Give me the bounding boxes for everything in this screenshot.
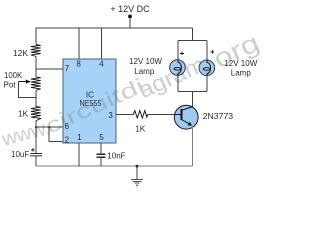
resistor 12K: [31, 45, 41, 57]
wire left rail upper: [35, 28, 37, 44]
wire lamp feed: [192, 28, 194, 40]
transistor Q1 2N3773: [174, 105, 198, 129]
svg-text:2: 2: [65, 135, 70, 144]
node +12V DC terminal: [128, 15, 132, 19]
lamp L1 12V 10W: [170, 60, 186, 76]
svg-text:2N3773: 2N3773: [203, 111, 234, 121]
ground: [131, 180, 143, 184]
IC U1 NE555: [63, 59, 116, 143]
svg-text:3: 3: [108, 111, 113, 120]
svg-text:1K: 1K: [135, 123, 146, 133]
wire to pin 7: [36, 68, 63, 70]
svg-text:Pot: Pot: [4, 81, 17, 90]
capacitor 10uF: [31, 152, 43, 154]
capacitor 10nF: [96, 153, 105, 155]
wire ground stub: [136, 166, 138, 179]
wire lamp2 top lead: [206, 40, 208, 60]
wire 12K to pot: [35, 57, 37, 78]
svg-text:5: 5: [99, 133, 104, 142]
wire emitter lead: [192, 126, 194, 166]
svg-text:4: 4: [99, 60, 104, 69]
resistor 1K left: [31, 107, 41, 121]
svg-text:6: 6: [65, 122, 70, 131]
wire lamp top bar: [178, 39, 207, 41]
svg-text:12K: 12K: [13, 48, 28, 58]
wire pot to 1K: [35, 90, 37, 107]
node ground junction: [136, 165, 139, 168]
wire 10nF to bottom rail: [100, 157, 102, 166]
wire pin 3 to 1K: [116, 113, 134, 115]
watermark www.circuitdiagram.org: [0, 27, 264, 151]
wire supply stub: [129, 17, 131, 28]
wire pin 8 lead: [78, 28, 80, 59]
svg-text:10nF: 10nF: [107, 152, 125, 161]
wire bottom rail: [36, 165, 193, 167]
svg-text:8: 8: [76, 60, 81, 69]
wire collector lead: [192, 91, 194, 107]
svg-text:1K: 1K: [18, 108, 29, 118]
wire to pin 2: [49, 127, 63, 141]
svg-text:12V 10W: 12V 10W: [224, 59, 257, 68]
wire cap to bottom rail: [35, 156, 37, 166]
svg-text:NE555: NE555: [80, 99, 102, 108]
svg-text:1: 1: [77, 133, 82, 142]
node plus lamp1: [180, 52, 184, 56]
wire pin 4 lead: [100, 28, 102, 59]
svg-text:10uF: 10uF: [11, 150, 29, 159]
node plus lamp2: [211, 50, 215, 54]
svg-text:+ 12V DC: + 12V DC: [110, 4, 150, 14]
node pin6 tee: [35, 126, 37, 128]
wire lamp1 bottom lead: [177, 75, 179, 91]
svg-text:Lamp: Lamp: [134, 67, 155, 76]
wire pin 1 lead: [78, 143, 80, 166]
wire top rail: [36, 27, 193, 29]
wire 1K to cap: [35, 121, 37, 154]
wire pin 5 lead: [100, 143, 102, 154]
resistor 1K base: [133, 111, 148, 118]
svg-text:7: 7: [65, 64, 70, 73]
svg-text:Lamp: Lamp: [231, 68, 252, 77]
wire to pin 6: [36, 126, 63, 128]
wire lamp bottom bar: [178, 90, 207, 92]
wire lamp1 top lead: [177, 40, 179, 60]
lamp L2 12V 10W: [199, 60, 215, 76]
wire 1K to base: [148, 113, 175, 115]
wire lamp2 bottom lead: [206, 76, 208, 92]
svg-text:12V 10W: 12V 10W: [129, 57, 162, 66]
potentiometer 100K Pot: [31, 77, 41, 90]
node pin2 branch: [48, 126, 50, 128]
svg-text:100K: 100K: [4, 71, 23, 80]
wire pot wiper: [18, 82, 36, 98]
